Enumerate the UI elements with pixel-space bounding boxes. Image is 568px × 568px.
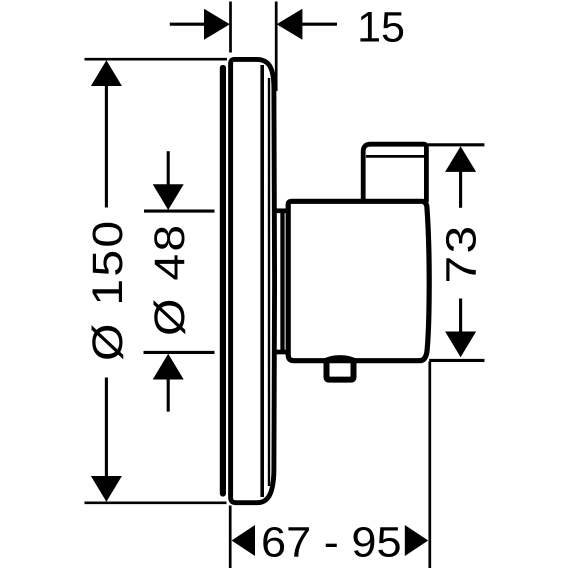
- dim 73: top arrowhead: [445, 146, 476, 172]
- handle cap line: [366, 155, 424, 158]
- dim 73: bottom extension line: [429, 359, 484, 362]
- dim D150: top extension line: [85, 58, 228, 61]
- svg-text:67 - 95: 67 - 95: [261, 518, 402, 566]
- mounting flange: [276, 208, 288, 213]
- dim 67-95: right arrowhead: [405, 525, 428, 556]
- plate back lip: [220, 68, 226, 494]
- dim D48: bottom tick line: [144, 351, 215, 354]
- svg-text:15: 15: [357, 4, 405, 52]
- svg-text:73: 73: [437, 223, 485, 283]
- dim 15: left arrowhead: [204, 9, 230, 40]
- dim D150: bottom extension line: [85, 501, 227, 504]
- dim D48: upper shaft: [167, 151, 170, 186]
- dim 15: left tail: [170, 23, 206, 26]
- dim 67-95: left extension line: [229, 506, 232, 568]
- dim D150: bottom arrowhead: [91, 476, 122, 502]
- plate face contour line A: [260, 65, 264, 497]
- dim 15: right extension line: [275, 2, 278, 92]
- dim 15: left extension line: [229, 2, 232, 53]
- dim 67-95: left arrowhead: [232, 525, 255, 556]
- dim 73: top extension line: [428, 143, 485, 146]
- function stop tab: [327, 358, 354, 380]
- handle: [363, 144, 426, 202]
- dim 73: upper shaft: [459, 171, 462, 208]
- dim 15: right tail: [300, 23, 337, 26]
- dim D48: lower arrowhead: [153, 354, 184, 380]
- dim D48: upper arrowhead: [153, 184, 184, 210]
- valve body: [288, 201, 429, 360]
- svg-text:Ø 48: Ø 48: [145, 223, 193, 336]
- dim 73: bottom arrowhead: [445, 332, 476, 358]
- dim D150: lower shaft: [105, 378, 108, 479]
- plate face contour line B: [268, 78, 270, 486]
- dim 73: lower shaft: [459, 299, 462, 334]
- dim D48: top tick line: [144, 210, 215, 213]
- escutcheon plate outline: [231, 59, 275, 502]
- dim 67-95: right extension line: [428, 362, 431, 568]
- svg-text:Ø 150: Ø 150: [83, 219, 131, 361]
- dim 15: right arrowhead: [277, 9, 303, 40]
- dim D150: upper shaft: [105, 84, 108, 208]
- dim D48: lower shaft: [167, 378, 170, 412]
- dim D150: top arrowhead: [91, 60, 122, 86]
